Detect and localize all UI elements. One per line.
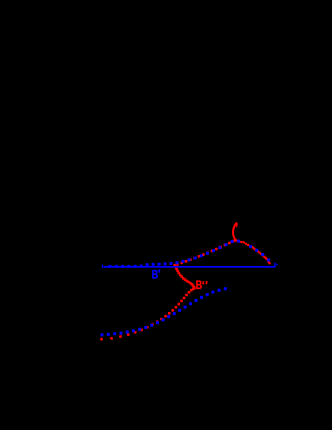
red dotted path ascending above horizon	[176, 240, 235, 266]
red dotted refracted path: lower tail to cusp	[100, 287, 196, 341]
horizon right end tick	[274, 263, 275, 266]
label B'	[152, 268, 161, 282]
red solid cusp loop at apex	[233, 223, 237, 240]
horizon right end small dot	[276, 264, 278, 266]
blue dotted apparent path over horizon	[109, 240, 271, 268]
svg-text:B: B	[152, 268, 159, 282]
blue dotted lower ray	[101, 287, 227, 336]
label B''	[196, 278, 208, 292]
horizon line	[104, 266, 276, 268]
horizon left end tick	[102, 265, 103, 269]
red dotted path descending to horizon	[235, 239, 271, 265]
svg-text:B: B	[196, 278, 203, 292]
red dotted refracted path: cusp back up to horizon junction	[173, 264, 195, 289]
